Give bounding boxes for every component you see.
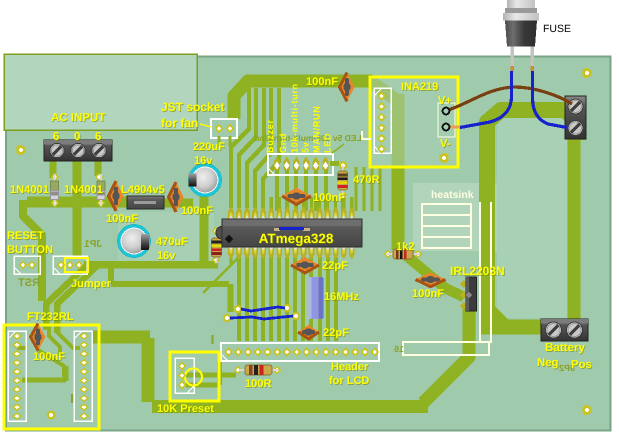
svg-text:470R: 470R [353, 174, 380, 186]
crystal X1 16MHz [309, 277, 324, 319]
battery terminal block (bottom) [541, 319, 588, 341]
wire ATmega bottom drops to LCD header [237, 257, 241, 341]
node preset pads [178, 361, 186, 370]
silkscreen LCD header box [221, 343, 379, 361]
capacitor C3 220uF [188, 163, 222, 197]
svg-text:BUTTON: BUTTON [7, 244, 53, 256]
svg-text:Jumper: Jumper [71, 278, 112, 290]
svg-text:100R: 100R [245, 378, 272, 390]
svg-text:22pF: 22pF [323, 327, 349, 339]
wire fan-out bundle to ATmega [231, 88, 249, 208]
svg-text:470uF: 470uF [156, 236, 188, 248]
silkscreen RESET header box [14, 256, 40, 274]
silkscreen preset circle [185, 369, 202, 386]
svg-text:Battery: Battery [545, 341, 586, 354]
battery charge terminal block (top right) [565, 96, 586, 139]
capacitor C6 100nF (top) [340, 73, 355, 102]
svg-text:1N4001: 1N4001 [64, 184, 103, 196]
silkscreen jumper yellow highlight [65, 258, 88, 272]
svg-text:for fan: for fan [161, 116, 198, 130]
silkscreen heatsink fins [422, 204, 471, 215]
capacitor C8 22pF top [291, 257, 319, 273]
silkscreen preset yellow box [170, 352, 219, 401]
diode D2 1N4001 [100, 174, 102, 206]
node resistor-left pads [212, 227, 220, 236]
capacitor C2 100nF [169, 182, 184, 212]
svg-text:16v: 16v [194, 155, 213, 167]
node MOSFET gate pads [460, 280, 468, 288]
wire FT232 inner stubs [49, 326, 60, 356]
MOSFET module interior [497, 116, 567, 318]
silkscreen LCD module box [403, 342, 489, 355]
node ATmega bottom pins [228, 247, 234, 260]
svg-text:Gnd: Gnd [278, 133, 288, 153]
wire MOSFET down + big bottom run [92, 308, 469, 407]
wire header drops [275, 170, 279, 211]
wire thin diagonals bottom-left of ATmega [210, 252, 238, 286]
diode D1 1N4001 [54, 174, 56, 206]
silkscreen mirrored RST [18, 277, 40, 289]
svg-text:6: 6 [95, 131, 101, 143]
resistor R4 100R [239, 369, 278, 371]
svg-text:IRL2203N: IRL2203N [450, 264, 505, 278]
node 470R pads [338, 161, 348, 171]
wire blue fuse-right to battery charge [533, 71, 568, 128]
capacitor C4 470uF [117, 224, 151, 258]
node LCD header pads [224, 347, 233, 357]
svg-text:FUSE: FUSE [543, 23, 571, 35]
node JST pads [215, 124, 224, 134]
via left [16, 145, 27, 156]
wire preset rails [186, 373, 236, 378]
AC-DC adapter module body [4, 54, 197, 130]
svg-text:16v: 16v [157, 250, 176, 262]
silkscreen small marks [212, 335, 214, 344]
node FT232 pads [12, 332, 22, 340]
transistor Q1 IRL2203N [466, 277, 477, 311]
node blue-wire pads [233, 304, 242, 313]
node jumper pads [57, 261, 65, 270]
wire AC terminal stubs [50, 160, 57, 178]
svg-text:100nF: 100nF [181, 205, 213, 217]
wire diode row horizontal [27, 197, 128, 208]
via FT232 [46, 410, 56, 420]
svg-text:1k2: 1k2 [396, 241, 415, 253]
wire brown (V+ to charge terminal) [448, 87, 572, 110]
svg-text:RST: RST [18, 277, 40, 289]
svg-text:Header: Header [331, 361, 369, 373]
wire 470R drop [341, 196, 344, 211]
resistor R3 1k2 [387, 253, 419, 255]
svg-text:100nF: 100nF [106, 213, 138, 225]
op-amp U1 ATmega328 [222, 219, 362, 247]
silkscreen mirrored JP1 [84, 239, 102, 250]
svg-text:FT232RL: FT232RL [27, 311, 74, 323]
wire tan stub V- [449, 126, 461, 129]
silkscreen INA219 yellow box [370, 77, 458, 167]
wire blue jumper 1 (bottom) [241, 307, 285, 311]
node INA219 pads [377, 91, 386, 101]
wire regulator to 220uF [163, 199, 193, 208]
svg-text:0: 0 [74, 131, 80, 143]
silkscreen mirrored LED label [254, 133, 361, 143]
wire top rail + JST drop [234, 81, 395, 119]
silkscreen cream corner mark [362, 131, 371, 139]
svg-text:INA219: INA219 [401, 81, 438, 93]
wire header to 470R [330, 161, 339, 166]
silkscreen jumper header box [53, 256, 87, 274]
wire big arch (battery charge) [487, 110, 578, 330]
svg-text:Buzzer: Buzzer [265, 119, 275, 153]
svg-text:6: 6 [53, 131, 59, 143]
svg-text:MAN/RUN: MAN/RUN [312, 106, 322, 153]
capacitor C7 100nF (header) [282, 188, 311, 205]
svg-text:ATmega328: ATmega328 [259, 231, 334, 246]
hole V+ [443, 108, 450, 115]
hole V- [443, 124, 450, 131]
node ATmega top pins [229, 197, 232, 209]
svg-text:AC INPUT: AC INPUT [51, 112, 105, 124]
via top right [582, 68, 593, 79]
regulator U2 L4904v5 [127, 196, 164, 209]
via bottom right [582, 405, 593, 416]
svg-text:JP1: JP1 [84, 239, 102, 250]
svg-text:heatsink: heatsink [431, 189, 474, 201]
svg-text:Pos: Pos [571, 359, 592, 371]
silkscreen INA219 pads box [374, 88, 391, 153]
svg-text:10K Preset: 10K Preset [157, 403, 214, 415]
wire left branch down to RST area [23, 200, 42, 301]
svg-text:LED: LED [323, 133, 333, 153]
silkscreen JST socket box [211, 119, 237, 138]
svg-text:100nF: 100nF [412, 288, 444, 300]
wire blue jumper 2 (bottom) [230, 316, 293, 319]
silkscreen FT232 yellow box [4, 325, 99, 429]
svg-text:100nF: 100nF [306, 76, 338, 88]
via INA219 [439, 153, 450, 164]
svg-text:5v: 5v [301, 142, 311, 153]
svg-text:16: 16 [394, 344, 404, 354]
resistor R1 470R [342, 165, 344, 196]
silkscreen INA219 V box [438, 103, 455, 137]
node RESET pads [19, 261, 27, 270]
svg-text:JST socket: JST socket [161, 100, 224, 114]
svg-text:Neg: Neg [537, 357, 559, 369]
INA219 module body [371, 78, 457, 166]
capacitor C1 100nF [109, 181, 124, 211]
wire thin INA to ATmega verticals [355, 167, 358, 211]
node 100R pads [234, 366, 242, 375]
svg-text:for LCD: for LCD [329, 375, 369, 387]
silkscreen mirrored 16 [394, 344, 404, 354]
fuse holder [507, 0, 535, 8]
capacitor C10 100nF (MOSFET) [416, 272, 446, 287]
resistor R2 (ATmega left) [216, 232, 218, 263]
svg-text:220uF: 220uF [193, 141, 225, 153]
silkscreen 6-pin header box [268, 154, 333, 175]
svg-text:100nF: 100nF [33, 351, 65, 363]
svg-text:RESET: RESET [7, 230, 44, 242]
wire 1k2 diagonal to MOSFET [403, 253, 464, 297]
wire horizontal rail y284 [111, 266, 231, 312]
wire blue jumper on ATmega [274, 228, 280, 231]
wire blue fuse-left to V- [460, 71, 512, 128]
silkscreen MOSFET channel lines [479, 202, 481, 343]
silkscreen FT232 pad columns [8, 331, 26, 421]
AC terminal block [44, 140, 112, 161]
wire jumper diagonals to FT232 [46, 266, 86, 330]
silkscreen mirrored JP2 [559, 363, 575, 373]
svg-text:16MHz: 16MHz [324, 291, 359, 303]
capacitor C9 22pF bottom [298, 325, 319, 339]
capacitor C5 100nF (FT232) [31, 324, 46, 351]
svg-text:V+: V+ [438, 95, 452, 107]
silkscreen preset pads box [175, 358, 194, 393]
node 6-pin header pads [274, 157, 280, 171]
svg-text:V-: V- [440, 138, 451, 150]
wire JST pad stubs [219, 136, 230, 146]
svg-text:100nF: 100nF [313, 192, 345, 204]
node diode pads [51, 173, 59, 182]
svg-text:1N4001: 1N4001 [10, 184, 49, 196]
svg-text:22pF: 22pF [322, 260, 348, 272]
node 1k2 pads [384, 250, 392, 259]
svg-text:10k-multi-turn: 10k-multi-turn [290, 83, 300, 153]
wire horizontal rail y264 [84, 261, 218, 269]
regulator module body [118, 212, 214, 262]
svg-text:L4904v5: L4904v5 [121, 184, 165, 196]
